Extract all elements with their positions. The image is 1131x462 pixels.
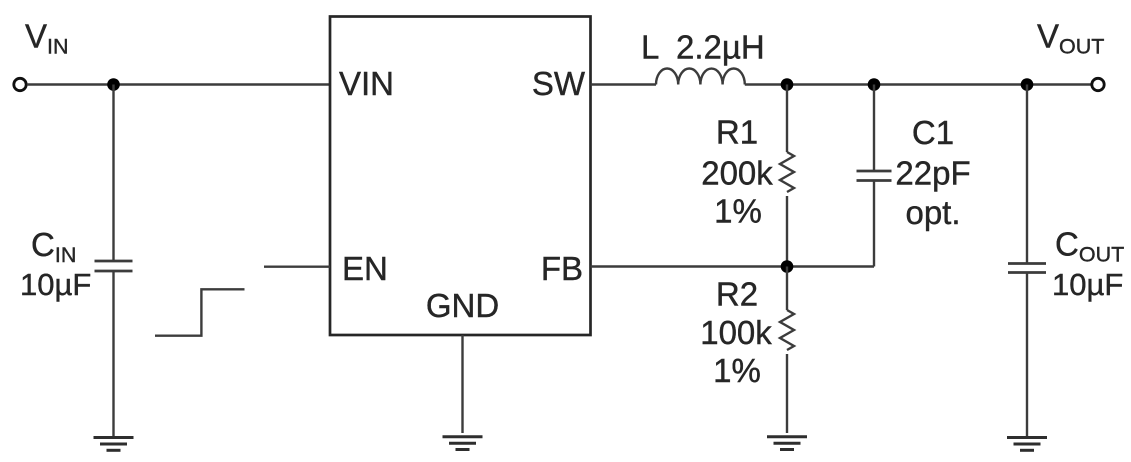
node VOUT junction: [1021, 78, 1034, 91]
svg-text:10µF: 10µF: [20, 267, 91, 302]
svg-text:FB: FB: [541, 250, 583, 287]
svg-text:SW: SW: [532, 65, 586, 102]
wire FB: [591, 265, 875, 267]
terminal VIN: [14, 78, 26, 90]
svg-text:VIN: VIN: [25, 18, 69, 59]
wire inductor to output terminal: [745, 83, 1092, 85]
node input junction: [107, 78, 120, 91]
capacitor COUT: [1008, 85, 1046, 438]
enable step signal: [155, 289, 245, 335]
svg-text:100k: 100k: [700, 314, 772, 351]
svg-text:EN: EN: [342, 250, 388, 287]
wire input rail: [27, 83, 330, 85]
svg-text:CIN: CIN: [31, 226, 76, 267]
ground CIN: [94, 438, 134, 451]
node C1 top junction: [868, 78, 881, 91]
capacitor CIN: [95, 85, 133, 438]
svg-text:2.2µH: 2.2µH: [676, 29, 765, 66]
svg-text:1%: 1%: [713, 352, 761, 389]
svg-text:opt.: opt.: [905, 194, 960, 231]
svg-text:VOUT: VOUT: [1037, 18, 1104, 59]
ground COUT: [1007, 438, 1047, 451]
svg-text:COUT: COUT: [1055, 226, 1124, 267]
svg-text:C1: C1: [912, 114, 954, 151]
ground R2: [767, 437, 807, 450]
svg-text:L: L: [641, 29, 659, 66]
ground IC: [443, 437, 483, 450]
wire SW to inductor: [591, 83, 657, 85]
svg-text:GND: GND: [426, 287, 499, 324]
terminal VOUT: [1092, 78, 1104, 90]
svg-text:R2: R2: [716, 276, 758, 313]
svg-text:1%: 1%: [714, 193, 762, 230]
resistor R2: [780, 267, 794, 434]
resistor R1: [780, 85, 794, 267]
wire GND pin: [461, 335, 463, 433]
svg-text:10µF: 10µF: [1052, 267, 1123, 302]
svg-text:22pF: 22pF: [895, 155, 970, 192]
capacitor C1: [857, 85, 892, 267]
node FB junction: [781, 260, 794, 273]
IC U1: [330, 17, 591, 336]
inductor L: [656, 68, 745, 84]
svg-text:R1: R1: [716, 114, 758, 151]
wire EN input: [264, 266, 330, 268]
node SW/R1 junction: [781, 78, 794, 91]
svg-text:200k: 200k: [701, 155, 773, 192]
svg-text:VIN: VIN: [339, 65, 394, 102]
